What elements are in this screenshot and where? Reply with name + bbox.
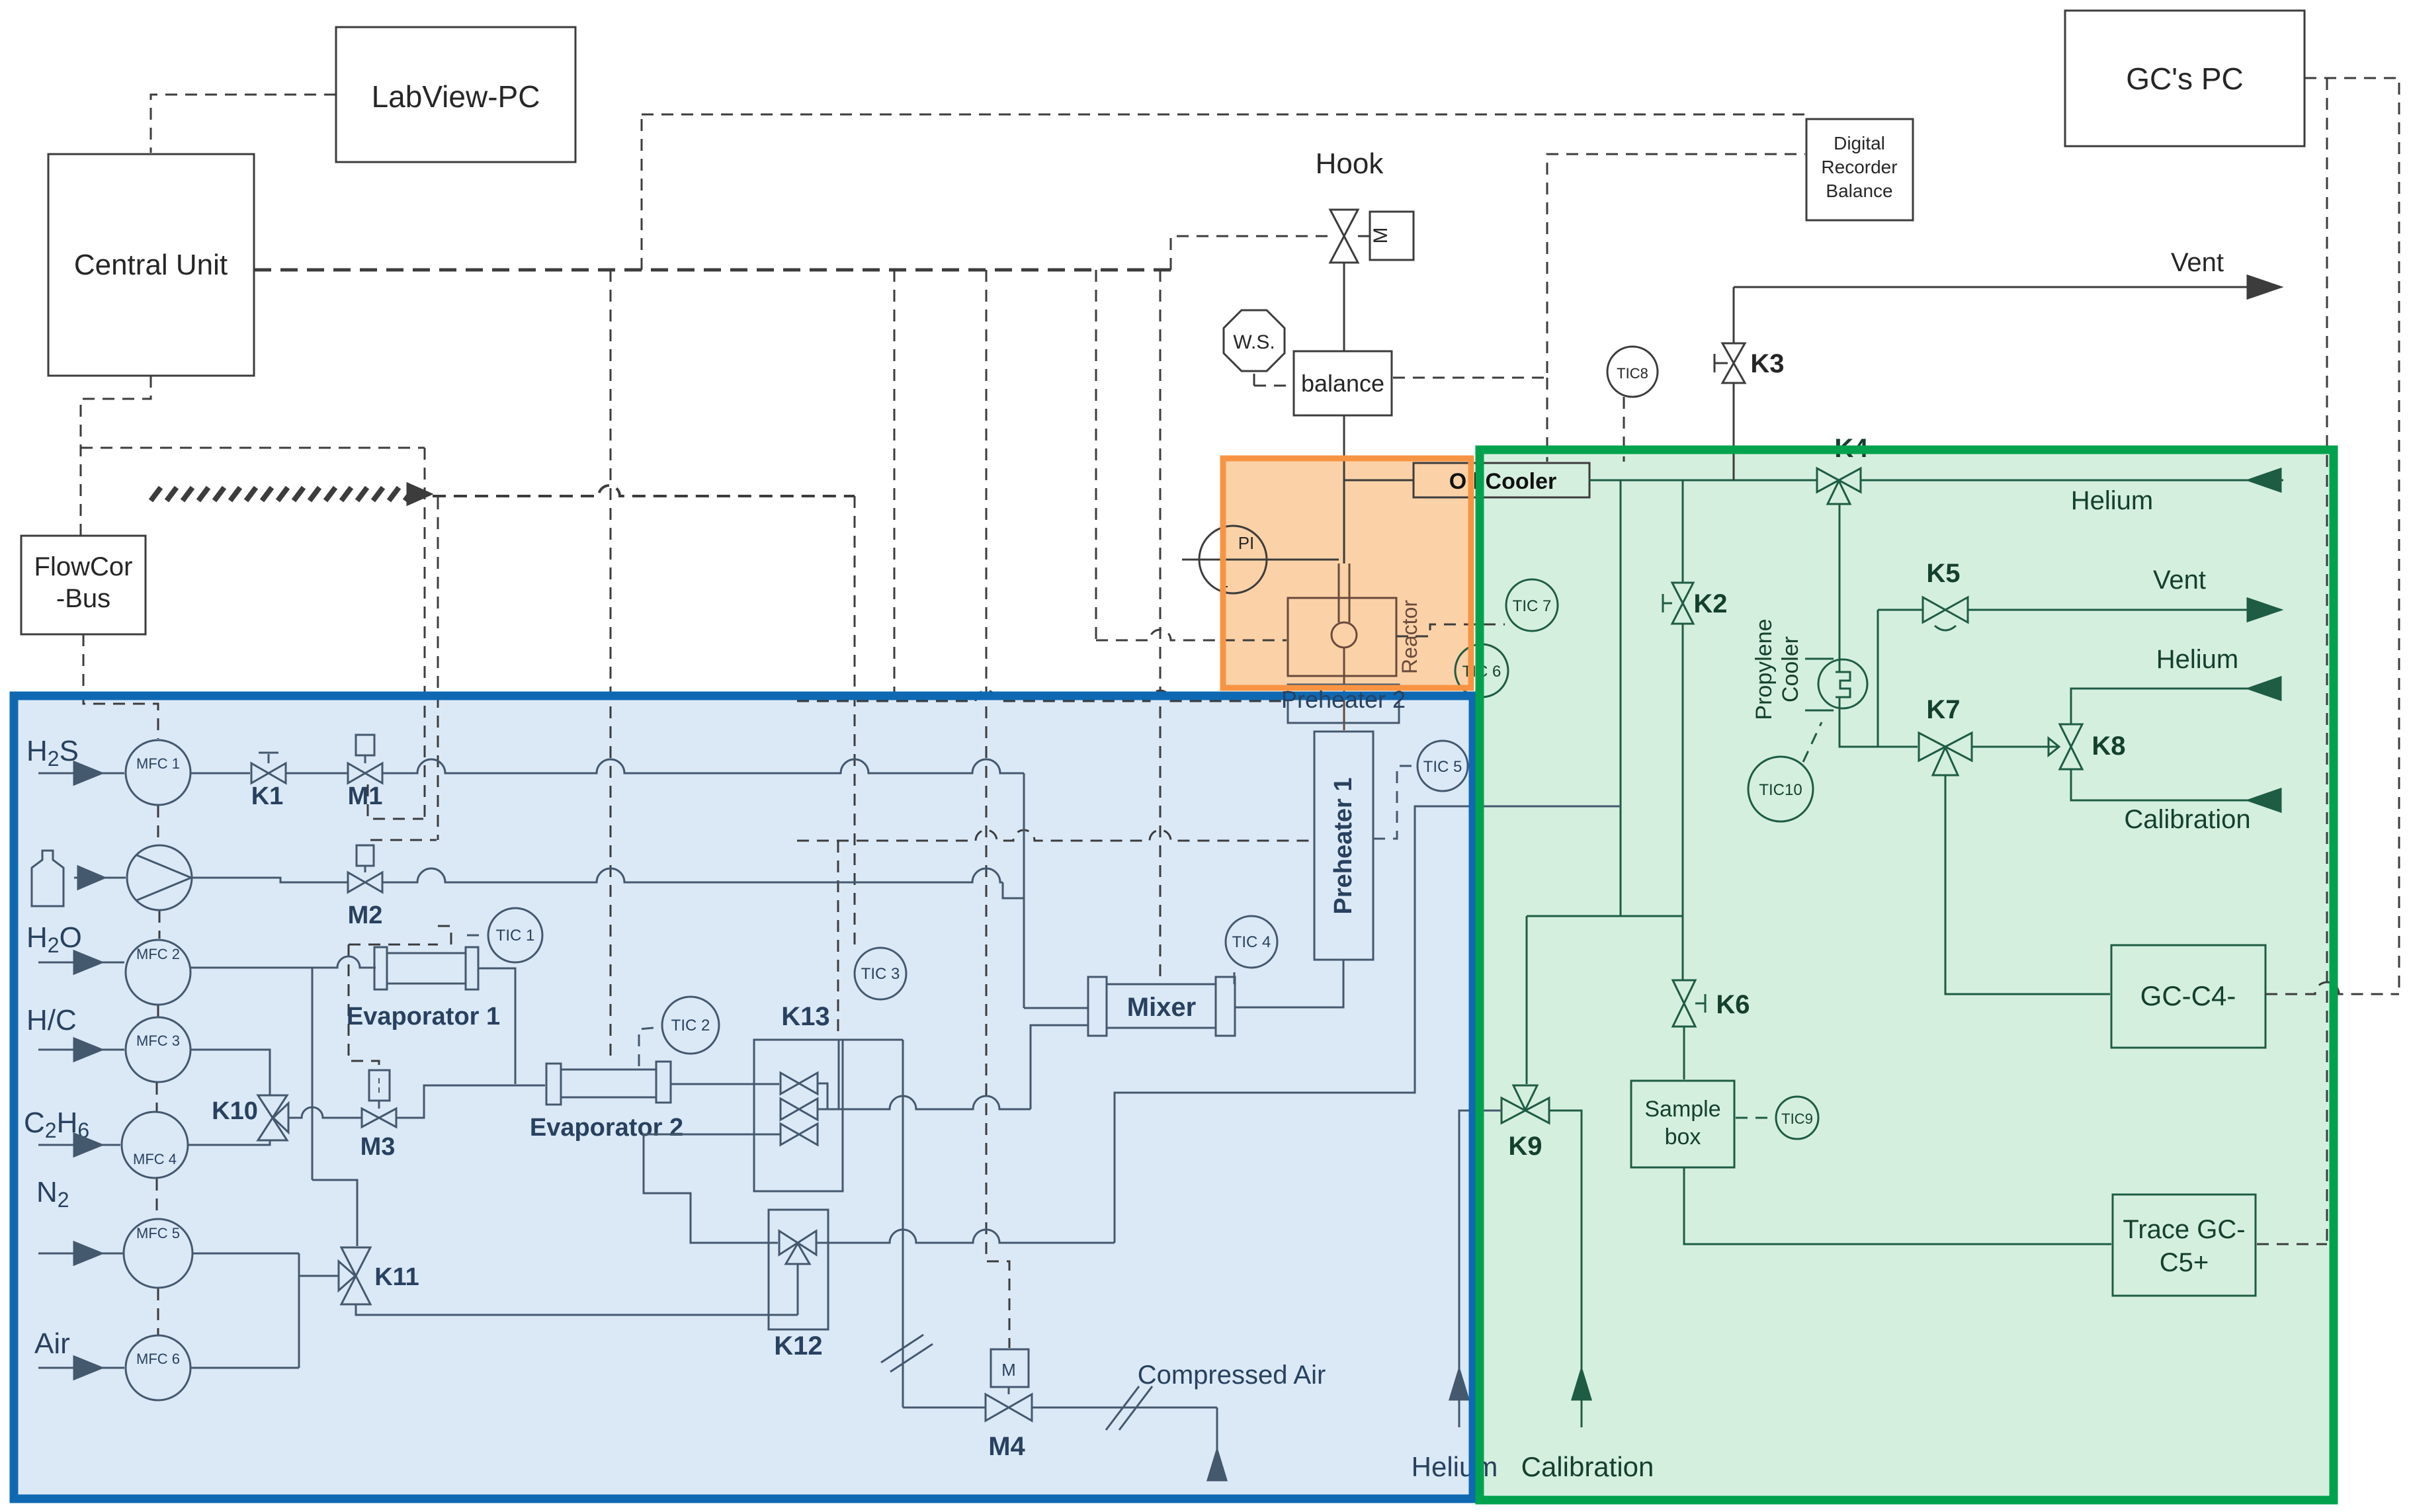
svg-text:GC-C4-: GC-C4-: [2140, 980, 2236, 1011]
pipe row2 jog join riser: [1003, 882, 1024, 898]
box Oil Cooler: [1414, 463, 1589, 497]
pipe pump outlet: [192, 878, 348, 882]
svg-text:Helium: Helium: [2156, 645, 2238, 674]
pipe K11 bottom to K12 bottom: [356, 1304, 798, 1315]
arrow air inlet: [1208, 1450, 1226, 1480]
pipe mixer inlet stub upper: [1024, 1007, 1088, 1009]
valve K2: [1663, 583, 1693, 624]
pipe main line riser to mixer lower stub: [1031, 1025, 1088, 1109]
pipe bypass to M4 valve: [903, 1407, 986, 1409]
arrow helium mid: [2248, 677, 2281, 700]
wire dashed GC-C4- to PC bus: [2265, 982, 2399, 994]
svg-text:K10: K10: [212, 1097, 258, 1125]
pipe branch to K11 top: [312, 1180, 357, 1246]
svg-text:C5+: C5+: [2160, 1248, 2209, 1277]
pipe join to K11: [299, 1275, 339, 1277]
box Preheater 2: [1288, 685, 1399, 723]
vessel Evaporator 2: [546, 1062, 671, 1105]
pipe K10 to M3: [288, 1107, 362, 1118]
svg-text:TIC 7: TIC 7: [1513, 597, 1552, 615]
pipe Helium to K4: [1861, 480, 2283, 482]
svg-text:-Bus: -Bus: [56, 584, 110, 613]
arrow vent mid: [2248, 599, 2281, 621]
valve K7 (3-way): [1919, 733, 1972, 775]
wire W.S. stub: [1253, 374, 1255, 386]
box LabView-PC: [336, 27, 575, 162]
wire dashed vertical V662 to M2/evaporator controls: [437, 497, 439, 840]
wire dashed PC bus vertical outer: [2304, 78, 2399, 994]
pipe mixer outlet to preheater 1: [1235, 960, 1343, 1007]
instrument TIC 2: [662, 997, 719, 1054]
wire dashed Central Unit bottom to FlowCor-Bus: [81, 376, 151, 536]
svg-text:LabView-PC: LabView-PC: [372, 79, 540, 114]
valve K9 (3-way): [1501, 1085, 1549, 1123]
svg-text:M4: M4: [988, 1432, 1025, 1461]
pipe M4 to air inlet: [1032, 1407, 1217, 1409]
instrument TIC5: [1417, 741, 1468, 791]
arrow H/C feed: [38, 1038, 124, 1061]
valve K13-1: [781, 1073, 818, 1094]
pipe mid cross line into green: [1474, 806, 1621, 808]
svg-text:TIC 1: TIC 1: [496, 927, 535, 945]
controller MFC 2: [126, 940, 190, 1005]
pipe K1 to M1: [286, 773, 348, 775]
pipe Oil Cooler to K4 junction: [1589, 480, 1816, 482]
valve K11 (3-way): [339, 1247, 370, 1304]
svg-text:K2: K2: [1693, 589, 1727, 618]
pipe bypass vertical V1365 to M4: [902, 1040, 904, 1407]
svg-text:Helium: Helium: [1412, 1451, 1498, 1482]
pipe K13 top feed vertical: [838, 1040, 840, 1109]
svg-text:Compressed Air: Compressed Air: [1138, 1361, 1326, 1390]
svg-text:Evaporator 1: Evaporator 1: [347, 1003, 500, 1030]
pipe K12 bottom port: [797, 1264, 799, 1315]
pipe row1 to mixer riser: [382, 759, 1024, 773]
wire dashed TIC4 stub: [1234, 969, 1236, 984]
wire dashed FlowCor-Bus to MFC 1: [83, 634, 158, 739]
pipe Sample box to Trace GC: [1684, 1167, 2111, 1244]
svg-text:Preheater 1: Preheater 1: [1330, 777, 1357, 914]
valve K3: [1714, 343, 1745, 383]
svg-text:box: box: [1665, 1124, 1701, 1150]
arrow bottle feed: [74, 866, 126, 889]
border orange region: [1223, 458, 1471, 688]
vessel Evaporator 1: [374, 947, 478, 989]
instrument TIC 4: [1226, 916, 1277, 968]
svg-text:Central Unit: Central Unit: [74, 249, 228, 281]
svg-text:MFC 5: MFC 5: [136, 1225, 180, 1241]
box Sample box: [1631, 1081, 1734, 1167]
region fill green (analysis zone): [1480, 450, 2334, 1500]
svg-text:Hook: Hook: [1316, 147, 1384, 180]
svg-text:Calibration: Calibration: [2124, 805, 2250, 834]
arrow C2H6 feed: [38, 1134, 120, 1156]
pipe K8 up to helium inlet: [2071, 689, 2279, 724]
svg-text:Trace GC-: Trace GC-: [2123, 1215, 2245, 1244]
wire dashed Trace GC to PC bus: [2257, 1243, 2327, 1245]
svg-text:Propylene: Propylene: [1752, 618, 1777, 720]
break marks on V1365: [881, 1335, 923, 1363]
wire dashed vertical V1352: [894, 270, 896, 700]
valve M4: [986, 1349, 1032, 1421]
arrow vent top: [2248, 276, 2281, 298]
valve M1: [348, 735, 382, 783]
instrument TIC8: [1607, 347, 1658, 397]
svg-text:H/C: H/C: [26, 1004, 77, 1036]
pipe K13-3 to K12 link: [644, 1134, 781, 1243]
svg-text:K7: K7: [1926, 695, 1960, 724]
svg-text:MFC 4: MFC 4: [133, 1151, 177, 1167]
wire dashed MFC chain 1-pump: [157, 806, 159, 845]
box GC's PC: [2065, 11, 2304, 146]
arrow calibration bottom inlet: [1572, 1369, 1591, 1400]
pipe MFC3 to K10 top: [190, 1050, 270, 1095]
box GC-C4-: [2111, 945, 2265, 1048]
box K12 group: [769, 1210, 828, 1329]
pipe K6 to Sample box: [1683, 1027, 1685, 1079]
cable arrowhead: [407, 483, 431, 505]
wire K3 down to helium header: [1733, 383, 1735, 480]
wire dashed vertical V643 to valve M1/M2 controls: [424, 448, 426, 819]
svg-text:K8: K8: [2092, 732, 2125, 761]
break marks compressed air: [1106, 1386, 1139, 1430]
label Propylene Cooler (rotated): [1752, 618, 1803, 720]
svg-text:Air: Air: [34, 1327, 70, 1360]
svg-text:MFC 1: MFC 1: [136, 755, 180, 772]
svg-text:TIC 5: TIC 5: [1423, 758, 1462, 776]
wire dashed to Digital Recorder Balance: [642, 114, 1805, 116]
instrument TIC9: [1776, 1097, 1818, 1139]
pipe MFC1 to K1: [190, 773, 250, 775]
valve K10 (3-way): [258, 1095, 288, 1140]
vessel Mixer: [1088, 977, 1235, 1036]
pipe branch down to K10 zone: [312, 968, 314, 1180]
svg-text:K6: K6: [1716, 990, 1750, 1019]
box Trace GC-C5+: [2113, 1195, 2256, 1296]
svg-text:TIC8: TIC8: [1617, 365, 1648, 382]
pipe K13-2 out main line: [818, 1109, 843, 1111]
controller MFC 5: [124, 1219, 192, 1288]
svg-text:M: M: [1001, 1360, 1016, 1380]
wire dashed TIC5 to preheater: [1373, 766, 1416, 839]
pipe K4 header down to K2: [1682, 480, 1684, 583]
instrument TIC 3: [855, 948, 906, 999]
svg-text:M3: M3: [360, 1133, 396, 1161]
pipe air inlet riser: [1216, 1407, 1218, 1480]
svg-text:balance: balance: [1301, 370, 1384, 397]
svg-text:Digital: Digital: [1834, 133, 1885, 153]
wire dashed recorder branch to oil cooler: [1546, 378, 1548, 462]
box Reactor: [1288, 598, 1396, 730]
pipe K8 down to calibration inlet: [2071, 769, 2279, 800]
wire dashed FlowCor branch lower: [81, 447, 425, 449]
actuator M box of Hook valve: [1358, 212, 1414, 260]
pipe riser to K5: [1878, 609, 1922, 611]
wire dashed stub to M1 actuator: [368, 784, 423, 819]
valve K13-2: [781, 1099, 818, 1120]
instrument PI 1 circle: [1182, 526, 1339, 593]
wire bold dashed Central Unit data bus: [254, 269, 1171, 272]
pipe K12 out riser to cross line: [1115, 806, 1621, 1243]
arrow H2O feed: [38, 951, 124, 974]
svg-text:Balance: Balance: [1826, 181, 1892, 201]
pipe MFC5 out: [192, 1253, 299, 1255]
wire dashed riser Central Unit bus to Digital Recorder line: [641, 114, 643, 270]
svg-text:TIC 4: TIC 4: [1232, 933, 1271, 951]
pipe evaporator 1 outlet down: [478, 968, 515, 1084]
valve K1: [251, 753, 286, 783]
wire dashed MFC chain pump-2: [159, 911, 161, 939]
pipe K13-1 out joining: [818, 1083, 827, 1109]
cable striped multicore to junction: [151, 487, 161, 501]
wire dashed TIC8 stub: [1623, 397, 1625, 462]
svg-text:Calibration: Calibration: [1521, 1451, 1654, 1482]
controller MFC 6: [126, 1335, 190, 1400]
valve K6: [1673, 980, 1705, 1027]
pipe reactor feed tube (double line): [1338, 564, 1340, 622]
pipe MFC4 to K10 bottom: [188, 1140, 270, 1145]
region fill blue (feed/mixing zone): [14, 696, 1473, 1499]
wire dashed reactor left port feed: [1096, 630, 1287, 640]
svg-text:TIC10: TIC10: [1759, 781, 1802, 799]
wire dashed stub to M2 actuator: [370, 839, 437, 841]
arrow Air feed: [38, 1357, 124, 1379]
wire dashed W.S. to balance: [1254, 385, 1292, 387]
border blue region: [14, 696, 1473, 1499]
pipe Vent top line: [1734, 286, 2279, 288]
svg-text:MFC 3: MFC 3: [136, 1032, 180, 1049]
valve K8: [2060, 724, 2082, 769]
svg-text:K1: K1: [251, 782, 284, 810]
instrument TIC7: [1506, 579, 1558, 631]
wire dashed TIC2 stub: [639, 1027, 661, 1066]
valve M3: [362, 1070, 396, 1127]
box Digital Recorder Balance: [1806, 119, 1913, 220]
wire dashed vertical V923 to evaporator 2: [610, 270, 612, 1058]
svg-text:MFC 6: MFC 6: [136, 1351, 180, 1367]
controller MFC 1: [126, 740, 190, 805]
box balance: [1294, 351, 1392, 415]
wire dashed balance to Digital Recorder Balance: [1393, 154, 1805, 378]
svg-text:K12: K12: [774, 1331, 822, 1361]
wire tee to Oil Cooler box: [1344, 480, 1414, 482]
pipe helium inlet to K9: [1459, 1111, 1501, 1427]
pipe K9 to calibration inlet: [1549, 1111, 1582, 1427]
svg-text:Oil Cooler: Oil Cooler: [1449, 469, 1556, 494]
svg-text:FlowCor: FlowCor: [34, 552, 133, 581]
arrow helium top: [2248, 469, 2281, 491]
pipe MFC6 out: [190, 1367, 299, 1369]
svg-text:Vent: Vent: [2171, 248, 2224, 277]
wire dashed PC bus vertical inner: [2326, 78, 2328, 1244]
pipe mixer riser vertical: [1023, 773, 1025, 1008]
svg-text:Evaporator 2: Evaporator 2: [530, 1114, 683, 1142]
arrow calibration mid: [2248, 789, 2281, 812]
wire dashed MFC chain 4-5: [156, 1179, 158, 1218]
wire dashed sample box to TIC9: [1736, 1117, 1775, 1119]
pipe junction vertical V2450: [1620, 480, 1622, 916]
arrow N2 feed: [38, 1242, 123, 1265]
pipe K4 down to propylene cooler: [1839, 504, 1841, 660]
heat-exchanger Propylene Cooler symbol: [1805, 659, 1867, 710]
wire dashed vertical to M3 actuator: [349, 945, 379, 1069]
wire dashed drop to evaporator 1 top: [438, 926, 451, 951]
svg-text:TIC9: TIC9: [1781, 1111, 1813, 1127]
svg-text:Recorder: Recorder: [1821, 157, 1897, 177]
wire balance line down to reactor tube: [1343, 480, 1345, 564]
svg-text:K9: K9: [1508, 1132, 1542, 1161]
box FlowCor-Bus: [21, 536, 146, 634]
wire dashed MFC chain 3-4: [156, 1083, 158, 1111]
valve K12 (3-way): [779, 1231, 816, 1264]
wire dashed elbow to Hook valve: [1171, 236, 1329, 270]
arrow H2S feed: [38, 762, 124, 784]
pipe K5 to vent: [1968, 609, 2279, 611]
svg-text:K5: K5: [1926, 559, 1960, 588]
pipe K7 to K8: [1972, 746, 2058, 748]
valve K4 (3-way): [1817, 468, 1861, 504]
pipe K9 riser link line: [1527, 915, 1683, 917]
instrument W.S. octagon: [1224, 310, 1285, 371]
svg-text:Mixer: Mixer: [1127, 993, 1197, 1022]
wire dashed MFC chain 5-6: [157, 1288, 159, 1335]
pipe K12 main out: [816, 1230, 1115, 1243]
wire balance down to oil cooler tee: [1343, 415, 1345, 480]
valve Hook (vertical control valve): [1330, 210, 1358, 263]
wire dashed junction to TIC3 drop: [433, 485, 855, 496]
region fill orange (reactor zone): [1223, 458, 1471, 688]
pipe K2 down to K6: [1682, 624, 1684, 980]
svg-text:Preheater 2: Preheater 2: [1281, 686, 1406, 713]
svg-text:M1: M1: [348, 782, 383, 810]
valve M2: [348, 845, 382, 892]
svg-text:W.S.: W.S.: [1233, 331, 1275, 353]
svg-text:M: M: [1370, 228, 1392, 244]
arrow tick at K8 inlet: [2049, 738, 2059, 755]
wire dashed LabView-PC to Central Unit: [151, 95, 336, 153]
wire dashed horizontal DH2 to preheater: [797, 830, 1314, 841]
pipe row2 to mixer riser: [382, 868, 1003, 882]
box Central Unit: [48, 154, 254, 376]
controller MFC 3: [126, 1017, 190, 1082]
wire dashed vertical V1657 to reactor left port: [1095, 270, 1097, 640]
vessel Preheater 1: [1314, 732, 1373, 960]
svg-text:PI: PI: [1238, 533, 1255, 553]
instrument TIC6: [1455, 644, 1508, 697]
pipe MFC5-6 join vertical: [298, 1253, 300, 1368]
valve K5: [1923, 597, 1968, 630]
pipe K7 down to GC-C4-: [1945, 775, 2110, 994]
pipe M3 to evaporator 2: [396, 1085, 545, 1118]
svg-text:Vent: Vent: [2153, 566, 2206, 595]
valve K13-3: [781, 1124, 818, 1145]
wire Hook valve to balance: [1343, 263, 1345, 351]
pipe evaporator 2 to K13: [671, 1083, 779, 1085]
pipe MFC2 to evaporator 1: [190, 956, 376, 968]
svg-text:K11: K11: [374, 1263, 419, 1291]
pipe main line K13 to mixer riser: [843, 1096, 1031, 1109]
pipe K5 branch riser: [1877, 610, 1879, 747]
instrument TIC 1: [488, 908, 542, 962]
wire dashed horizontal DH1 under blue border: [797, 691, 1283, 701]
svg-text:TIC 2: TIC 2: [671, 1017, 710, 1034]
arrow helium bottom inlet: [1450, 1369, 1468, 1400]
wire dashed reactor right to TIC7: [1396, 624, 1505, 636]
pump circle: [127, 845, 192, 910]
controller MFC 4: [122, 1112, 188, 1178]
svg-text:Cooler: Cooler: [1778, 636, 1803, 702]
pipe K13 bypass top link: [843, 1039, 903, 1041]
svg-text:K3: K3: [1750, 349, 1784, 378]
svg-text:TIC 3: TIC 3: [861, 965, 900, 983]
pipe cooler down to K7 header: [1839, 708, 1918, 747]
svg-text:M2: M2: [348, 902, 383, 929]
svg-text:MFC 2: MFC 2: [136, 946, 180, 962]
wire dashed link to M3 branch: [349, 944, 438, 946]
valve K3 line from vent elbow: [1733, 287, 1735, 343]
border green region: [1480, 450, 2334, 1500]
svg-text:K13: K13: [781, 1002, 829, 1031]
pipe K9 riser: [1526, 916, 1528, 1084]
svg-text:Helium: Helium: [2071, 486, 2153, 515]
wire dashed TIC10 to cooler: [1803, 722, 1822, 762]
wire dashed TIC1 stub: [467, 935, 487, 937]
wire dashed MFC chain 2-3: [157, 1005, 159, 1017]
wire dashed vertical V1292 to TIC3: [854, 496, 856, 946]
wire dashed vertical V1754 to mixer top: [1160, 270, 1162, 983]
wire dashed vertical V1491 to valve M4: [986, 270, 1009, 1348]
box K13 group: [754, 1040, 843, 1191]
bottle feed icon: [32, 851, 63, 906]
svg-text:GC's PC: GC's PC: [2126, 62, 2243, 96]
instrument TIC10: [1748, 757, 1813, 821]
svg-text:Sample: Sample: [1644, 1097, 1720, 1122]
wire dashed drop to K13 block: [837, 841, 839, 1038]
